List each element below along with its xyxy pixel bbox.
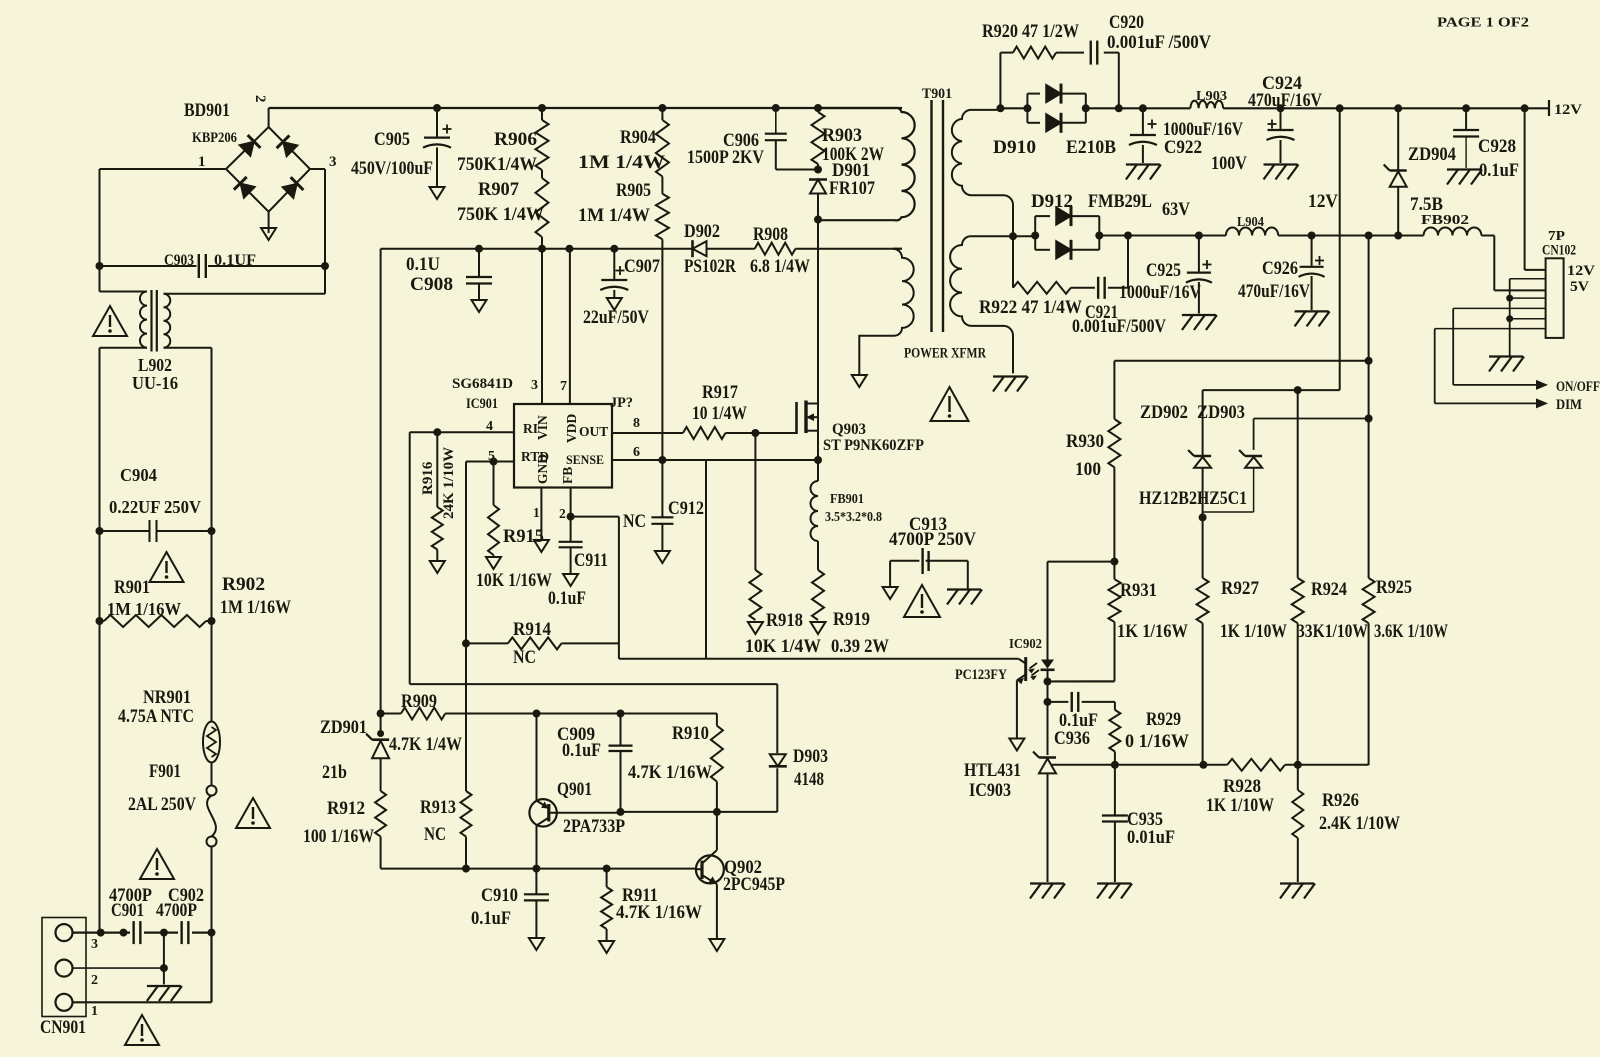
svg-text:750K 1/4W: 750K 1/4W <box>457 204 544 225</box>
svg-text:PS102R: PS102R <box>684 256 736 277</box>
diode D903 <box>769 684 787 812</box>
node CN102 bundle a <box>1506 295 1513 302</box>
svg-text:12V: 12V <box>1308 191 1338 212</box>
label C903 <box>164 252 194 269</box>
svg-text:R920 47 1/2W: R920 47 1/2W <box>982 21 1079 42</box>
svg-text:R903: R903 <box>822 125 862 146</box>
wire C901-C902 <box>144 931 178 933</box>
capacitor C903 <box>199 254 206 278</box>
svg-text:CN901: CN901 <box>40 1017 86 1038</box>
svg-text:ST P9NK60ZFP: ST P9NK60ZFP <box>823 437 924 454</box>
node VDD pin7 <box>565 245 573 253</box>
transformer T901 secondary winding A <box>952 110 1013 236</box>
svg-text:C912: C912 <box>668 498 704 519</box>
capacitor C904 <box>150 520 157 542</box>
label C926 value <box>1238 281 1310 302</box>
node R913 bottom <box>462 865 470 873</box>
svg-text:2: 2 <box>91 973 98 988</box>
label R902 value <box>220 597 291 618</box>
wire D901 to drain <box>817 220 819 404</box>
diode pair D912 FMB29L <box>1035 206 1099 260</box>
resistor R916 <box>432 432 443 560</box>
label R927 <box>1221 578 1259 599</box>
plus C922 <box>1148 120 1157 129</box>
label C907 value <box>583 307 649 328</box>
ground arrow C908 <box>472 300 487 312</box>
wire left rail down <box>99 621 101 933</box>
node CN102 bundle b <box>1506 315 1513 322</box>
label CN102 5V <box>1570 279 1589 295</box>
svg-text:KBP206: KBP206 <box>192 130 237 146</box>
label 7P <box>1548 229 1565 244</box>
svg-text:NC: NC <box>424 824 446 845</box>
ground C924 <box>1264 165 1299 180</box>
svg-text:0.1uF: 0.1uF <box>562 740 601 761</box>
pin 6 number <box>633 445 640 460</box>
ground C925 <box>1182 315 1217 330</box>
wire bridge bottom <box>268 212 270 233</box>
label R920 value <box>982 21 1079 42</box>
node C909 top <box>617 710 625 718</box>
wire pin8 OUT <box>612 432 683 434</box>
ground arrow R915 <box>486 557 501 569</box>
ground arrow pin1 <box>534 540 549 552</box>
label R916 <box>420 461 436 495</box>
plus C905 <box>443 125 452 134</box>
svg-text:470uF/16V: 470uF/16V <box>1238 281 1310 302</box>
svg-text:1: 1 <box>198 154 206 170</box>
svg-text:C904: C904 <box>120 465 157 485</box>
label R924 <box>1311 579 1347 600</box>
label CN901 <box>40 1017 86 1038</box>
ground arrow bridge <box>261 228 276 240</box>
node C924 top <box>1277 104 1285 112</box>
node R914 left <box>462 639 470 647</box>
label R907 value <box>457 204 544 225</box>
label ZD904 <box>1408 144 1456 165</box>
label BD901 <box>184 100 230 121</box>
svg-text:CN102: CN102 <box>1542 243 1576 259</box>
svg-text:C910: C910 <box>481 885 518 906</box>
svg-text:1M 1/16W: 1M 1/16W <box>107 599 181 619</box>
node Q901 emitter top <box>533 710 541 718</box>
svg-text:10K 1/4W: 10K 1/4W <box>745 636 821 657</box>
capacitor C913 <box>890 548 968 589</box>
label Q902 part <box>723 874 785 895</box>
svg-text:R908: R908 <box>753 224 788 245</box>
node R901 left <box>96 617 104 625</box>
label F901 value <box>128 794 196 815</box>
label C910 value <box>471 908 511 929</box>
wire pin6 SENSE <box>612 459 818 461</box>
op-amp U IC901 box <box>514 404 612 488</box>
label C935 <box>1127 809 1163 830</box>
wire emitter row <box>537 713 717 715</box>
label C928 value <box>1479 160 1519 181</box>
label D903 value <box>794 769 824 790</box>
svg-text:C936: C936 <box>1054 728 1090 749</box>
svg-text:10 1/4W: 10 1/4W <box>692 403 747 424</box>
svg-text:C905: C905 <box>374 129 410 150</box>
wire C903 left <box>100 265 197 267</box>
svg-text:VIN: VIN <box>535 415 550 440</box>
wire base row <box>621 811 778 813</box>
svg-text:0.01uF: 0.01uF <box>1127 827 1175 848</box>
label R910 value <box>628 762 712 783</box>
warning symbol secondary <box>931 387 969 421</box>
svg-text:HZ5C1: HZ5C1 <box>1197 488 1247 509</box>
svg-text:R915: R915 <box>503 526 544 547</box>
svg-text:2.4K 1/10W: 2.4K 1/10W <box>1319 813 1400 834</box>
wire FB to R914 <box>571 517 619 659</box>
node 12V vert <box>1336 104 1344 112</box>
label PAGE <box>1437 16 1529 31</box>
CN102 pin stub 7 <box>1435 328 1546 330</box>
wire pin5 RTD <box>466 461 514 463</box>
svg-text:ON/OFF: ON/OFF <box>1556 379 1600 395</box>
label R901 value <box>107 599 181 619</box>
resistor R918 <box>749 433 761 620</box>
warning symbol C913 <box>904 585 940 617</box>
label R918 <box>766 610 803 631</box>
node C920 right leg <box>1115 104 1123 112</box>
bridge rectifier BD901 <box>226 127 310 212</box>
label R930 <box>1066 431 1104 452</box>
svg-text:R919: R919 <box>833 609 870 630</box>
resistor R928 <box>1227 759 1285 771</box>
label 63V <box>1162 199 1190 220</box>
svg-text:R906: R906 <box>494 129 537 150</box>
capacitor C921 <box>1098 277 1105 299</box>
wire bridge pin1 <box>100 169 227 266</box>
label D912 <box>1031 191 1073 212</box>
label R913 NC <box>424 824 446 845</box>
label C907 <box>624 256 660 277</box>
svg-text:FR107: FR107 <box>829 178 875 199</box>
label R902 <box>222 574 265 595</box>
wire LED cathode to R931 <box>1048 680 1115 682</box>
transistor Q903 <box>797 401 819 435</box>
ground secondary <box>993 377 1028 392</box>
label 12V mid <box>1308 191 1338 212</box>
capacitor C928 <box>1453 108 1479 168</box>
label C904 <box>120 465 157 485</box>
svg-text:L904: L904 <box>1237 215 1264 230</box>
label R907 <box>478 179 519 200</box>
label ZD904 value <box>1410 194 1443 215</box>
resistor R930 <box>1108 419 1120 562</box>
label FB901 <box>830 492 864 507</box>
inductor FB901 <box>811 460 818 570</box>
svg-text:470uF/16V: 470uF/16V <box>1248 90 1322 111</box>
node C921 top <box>1124 232 1132 240</box>
label Q901 part <box>563 816 625 837</box>
wire bridge pin2 to HV bus <box>268 108 270 127</box>
wire C902 right <box>192 931 212 933</box>
capacitor C936 <box>1048 692 1115 712</box>
label R909 value <box>389 734 462 755</box>
pin 7 number <box>560 379 567 394</box>
label FMB29L <box>1088 191 1152 212</box>
label R904 value <box>578 152 665 173</box>
wire source to SENSE <box>817 431 819 460</box>
svg-text:R907: R907 <box>478 179 519 200</box>
label R926 <box>1322 790 1359 811</box>
label D901 <box>832 160 870 181</box>
label POWER XFMR <box>904 346 986 362</box>
wire R901 left <box>100 531 105 621</box>
resistor R914 <box>466 637 619 649</box>
label R928 <box>1223 776 1261 797</box>
svg-text:R912: R912 <box>327 798 365 819</box>
node R909 left <box>377 710 385 718</box>
CN102 pin stub 4 <box>1510 297 1546 299</box>
pin 3 number <box>531 378 538 393</box>
svg-text:0.22UF 250V: 0.22UF 250V <box>109 497 201 517</box>
label C902 value <box>156 900 197 921</box>
warning symbol above R901 <box>150 552 184 582</box>
wire C903 right <box>208 265 325 267</box>
node C904 right <box>208 527 216 535</box>
resistor R924 <box>1292 390 1304 765</box>
pin 1 label <box>198 154 206 170</box>
svg-text:21b: 21b <box>322 762 347 783</box>
svg-text:BD901: BD901 <box>184 100 230 121</box>
wire HV bus <box>269 107 902 109</box>
svg-text:63V: 63V <box>1162 199 1190 220</box>
node C928 top <box>1462 104 1470 112</box>
node R911 top <box>603 865 611 873</box>
pin 4 number <box>486 419 493 434</box>
resistor R927 <box>1197 517 1209 765</box>
svg-text:0.1UF: 0.1UF <box>214 252 256 269</box>
node R929 bottom <box>1111 761 1119 769</box>
diode pair D910 E210B <box>1027 84 1085 133</box>
resistor R917 <box>683 427 725 439</box>
label L902 <box>138 355 172 375</box>
svg-text:4.75A NTC: 4.75A NTC <box>118 706 194 727</box>
label R931 value <box>1117 621 1188 642</box>
plus C925 <box>1203 260 1212 269</box>
node R924 bottom <box>1294 761 1302 769</box>
connector CN102 <box>1546 258 1564 338</box>
label C909 <box>557 724 595 745</box>
label NR901 value <box>118 706 194 727</box>
label R927 value <box>1220 621 1287 642</box>
label R903 <box>822 125 862 146</box>
node ZD902 bottom <box>1199 513 1207 521</box>
svg-text:IC901: IC901 <box>466 396 498 412</box>
wire ON/OFF <box>1453 308 1548 390</box>
svg-text:FB902: FB902 <box>1421 213 1469 228</box>
svg-text:R924: R924 <box>1311 579 1347 600</box>
warning symbol near L902 <box>93 306 127 336</box>
svg-text:R916: R916 <box>420 461 436 495</box>
label R922 value <box>979 297 1082 318</box>
label ZD901 type <box>322 762 347 783</box>
label R910 <box>672 723 709 744</box>
transformer T901 secondary winding B <box>950 236 1013 373</box>
wire ZD903 top <box>1254 418 1369 420</box>
capacitor C911 <box>559 542 583 573</box>
node 63V R925 col <box>1365 232 1373 240</box>
label R918 value <box>745 636 821 657</box>
label R911 <box>622 885 658 906</box>
label R905 value <box>578 205 650 226</box>
svg-text:D903: D903 <box>793 746 828 767</box>
node D910 right <box>1082 104 1090 112</box>
svg-text:0.1U: 0.1U <box>406 254 440 275</box>
svg-text:2AL 250V: 2AL 250V <box>128 794 196 815</box>
label NR901 <box>143 687 191 708</box>
label C936 value <box>1059 710 1098 731</box>
svg-text:C901: C901 <box>111 900 144 921</box>
svg-text:D910: D910 <box>993 137 1036 158</box>
svg-text:SG6841D: SG6841D <box>452 376 513 392</box>
svg-text:0.1uF: 0.1uF <box>471 908 511 929</box>
label C925 <box>1146 260 1181 281</box>
label C922 <box>1164 137 1202 158</box>
label C925 value <box>1119 282 1201 303</box>
label C920 value <box>1107 32 1211 53</box>
svg-text:R914: R914 <box>513 619 551 640</box>
label HZ5C1 <box>1197 488 1247 509</box>
label R926 value <box>1319 813 1400 834</box>
wire CN901 pin2 row <box>73 967 164 969</box>
svg-text:4700P 250V: 4700P 250V <box>889 529 976 550</box>
ground CN901 <box>147 986 182 1001</box>
ground C922 <box>1126 165 1161 180</box>
svg-text:ZD902: ZD902 <box>1140 402 1188 423</box>
label 12V terminal <box>1554 102 1582 118</box>
svg-text:C920: C920 <box>1109 12 1144 33</box>
label C911 <box>574 550 608 571</box>
label SG6841D <box>452 376 513 392</box>
svg-text:0.1uF: 0.1uF <box>548 588 586 609</box>
svg-text:L902: L902 <box>138 355 172 375</box>
ground HTL431 <box>1030 884 1065 899</box>
optocoupler IC902 LED <box>1041 562 1115 682</box>
label R917 <box>702 382 738 403</box>
ground arrow R911 <box>599 941 614 953</box>
resistor R901 <box>104 615 206 627</box>
pin 1 label CN901 <box>91 1004 98 1019</box>
plus C924 <box>1268 120 1277 129</box>
svg-text:FB901: FB901 <box>830 492 864 507</box>
svg-text:R927: R927 <box>1221 578 1259 599</box>
label IC902 <box>1009 637 1042 652</box>
svg-text:R917: R917 <box>702 382 738 403</box>
inductor L902 left winding <box>100 266 148 531</box>
label R917 value <box>692 403 747 424</box>
resistor R926 <box>1292 765 1303 882</box>
capacitor C910 <box>524 869 549 937</box>
node C904 left <box>96 527 104 535</box>
wire ZD902 feed <box>1202 390 1204 455</box>
capacitor C902 <box>182 921 189 944</box>
svg-text:D902: D902 <box>684 221 720 242</box>
zener diode ZD903 <box>1203 419 1263 518</box>
ground arrow R916 <box>430 561 445 573</box>
optocoupler IC902 light arrows <box>1028 663 1039 680</box>
ground C935 <box>1097 884 1132 899</box>
label C905 value <box>351 158 433 179</box>
wire LED to C936 row <box>1047 682 1049 756</box>
label D901 value <box>829 178 875 199</box>
node HV R904 <box>658 104 666 112</box>
svg-text:R910: R910 <box>672 723 709 744</box>
node HV C906 <box>772 104 780 112</box>
svg-text:R909: R909 <box>401 691 437 712</box>
label R913 <box>420 797 456 818</box>
svg-text:3.6K 1/10W: 3.6K 1/10W <box>1374 621 1448 642</box>
label R931 <box>1120 580 1157 601</box>
node C903 left <box>96 262 104 270</box>
label T901 <box>922 86 952 102</box>
wire SENSE to opto row <box>705 460 707 659</box>
label E210B <box>1066 137 1116 158</box>
label KBP206 <box>192 130 237 146</box>
svg-text:2PC945P: 2PC945P <box>723 874 785 895</box>
warning symbol right of fuse <box>236 798 270 828</box>
label JP? <box>610 395 633 411</box>
svg-text:0.39 2W: 0.39 2W <box>831 636 889 657</box>
label C935 value <box>1127 827 1175 848</box>
wire opto collector row <box>619 658 1019 660</box>
svg-text:FB: FB <box>560 467 575 484</box>
CN102 pin stub 5 <box>1453 307 1545 309</box>
capacitor C901 <box>134 921 141 944</box>
svg-text:0 1/16W: 0 1/16W <box>1125 731 1189 752</box>
wire pin7 VDD <box>569 249 571 404</box>
pin 8 number <box>633 416 640 431</box>
resistor R908 <box>755 243 902 255</box>
wire pin2 FB <box>570 488 572 542</box>
label R912 <box>327 798 365 819</box>
svg-text:22uF/50V: 22uF/50V <box>583 307 649 328</box>
svg-text:D912: D912 <box>1031 191 1073 212</box>
svg-text:R925: R925 <box>1376 577 1412 598</box>
label R915 value <box>476 570 552 591</box>
label C902 <box>168 885 204 906</box>
node R925col-ZD903 <box>1365 415 1373 423</box>
wire bridge pin3 <box>310 169 325 266</box>
svg-text:8: 8 <box>633 416 640 431</box>
svg-text:2PA733P: 2PA733P <box>563 816 625 837</box>
label C901 value <box>109 885 152 906</box>
svg-text:GND: GND <box>535 454 550 484</box>
svg-text:POWER XFMR: POWER XFMR <box>904 346 986 362</box>
svg-text:4.7K 1/16W: 4.7K 1/16W <box>628 762 712 783</box>
node pin3 b <box>120 929 128 937</box>
svg-text:R913: R913 <box>420 797 456 818</box>
svg-text:E210B: E210B <box>1066 137 1116 158</box>
plus C907 <box>616 266 625 275</box>
resistor R929 <box>1109 702 1120 765</box>
svg-text:33K1/10W: 33K1/10W <box>1297 621 1368 642</box>
label FB901 size <box>825 510 882 525</box>
resistor R925 <box>1363 236 1375 766</box>
optocoupler IC902 phototransistor <box>1017 657 1026 737</box>
capacitor C922 <box>1129 108 1157 163</box>
label R909 <box>401 691 437 712</box>
node R927 bottom <box>1199 761 1207 769</box>
svg-text:NR901: NR901 <box>143 687 191 708</box>
wire DIM <box>1435 329 1548 409</box>
node R910 bottom <box>713 808 721 816</box>
label R916 value <box>441 447 457 519</box>
label CN102 <box>1542 243 1576 259</box>
